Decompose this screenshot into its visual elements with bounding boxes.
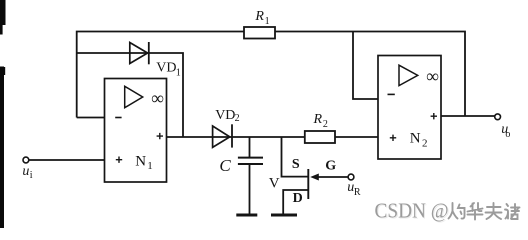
N2 plus sign output: [431, 113, 437, 119]
svg-text:S: S: [292, 157, 300, 172]
op-amp N1 box: [105, 79, 167, 183]
N1 plus sign input: [116, 157, 122, 163]
svg-text:2: 2: [235, 113, 240, 124]
transistor V gate arrowhead: [310, 174, 319, 181]
svg-text:o: o: [505, 129, 510, 140]
op-amp N1 triangle: [125, 86, 143, 107]
svg-text:u: u: [22, 164, 29, 179]
wire VD1 branch: [77, 53, 183, 137]
terminal uo: [495, 114, 501, 120]
svg-text:1: 1: [147, 160, 153, 172]
N2 plus sign input: [390, 135, 396, 141]
char zhuo: [449, 203, 465, 219]
svg-text:N: N: [410, 131, 421, 147]
svg-text:R: R: [354, 187, 361, 198]
svg-text:R: R: [313, 112, 323, 127]
label VD1: [156, 61, 181, 79]
diode VD1: [130, 42, 149, 64]
char fu: [486, 203, 502, 219]
op-amp N2 box: [378, 56, 441, 160]
label N2: [410, 131, 428, 150]
wire capacitor leads: [249, 137, 251, 214]
ground under capacitor: [236, 214, 257, 217]
wire FET gate from uR terminal: [318, 176, 349, 178]
svg-text:G: G: [325, 158, 336, 173]
resistor R2: [305, 131, 335, 143]
wire feedback loop top: left vertical, top horizontal, right vertical: [77, 32, 465, 118]
svg-text:i: i: [30, 170, 33, 181]
N2 minus sign: [388, 93, 395, 95]
wire FET source lead: [282, 137, 308, 177]
capacitor C plates: [238, 158, 263, 164]
svg-text:VD: VD: [156, 61, 176, 76]
svg-text:C: C: [219, 156, 231, 175]
svg-text:∞: ∞: [426, 66, 439, 86]
svg-text:2: 2: [323, 119, 328, 130]
wire N2 inverting input branch: [353, 32, 378, 100]
terminal uR: [348, 174, 354, 180]
terminal ui: [23, 157, 29, 163]
N1 plus sign output: [157, 133, 163, 139]
ground under FET drain: [271, 214, 297, 217]
svg-text:V: V: [269, 175, 280, 191]
wire N2 output: [441, 115, 495, 117]
op-amp N2 triangle: [399, 65, 418, 85]
label VD2: [215, 108, 239, 124]
label uR: [347, 180, 361, 198]
label ui: [22, 164, 32, 181]
wire input from ui terminal: [29, 159, 105, 161]
N1 minus sign: [115, 117, 121, 119]
svg-text:2: 2: [422, 137, 428, 149]
label R2: [313, 112, 328, 130]
svg-text:D: D: [293, 191, 303, 206]
wire FET drain lead: [283, 190, 308, 214]
label N1: [135, 153, 153, 172]
diode VD2: [213, 124, 232, 147]
scan artifact left edge: [0, 0, 6, 228]
svg-text:R: R: [254, 9, 264, 24]
resistor R1: [244, 27, 275, 39]
svg-text:∞: ∞: [151, 88, 164, 108]
transistor V (FET) channel bar: [307, 169, 309, 199]
wire N1 inverting input: [77, 117, 105, 119]
char hua: [468, 203, 483, 220]
svg-text:1: 1: [176, 67, 181, 78]
svg-text:1: 1: [265, 16, 270, 27]
char zhu: [505, 204, 520, 219]
svg-text:VD: VD: [215, 108, 235, 123]
svg-text:N: N: [135, 153, 146, 169]
label R1: [254, 9, 269, 27]
label uo: [501, 122, 510, 140]
watermark CSDN: [375, 199, 450, 224]
watermark chinese chars (drawn strokes): [449, 203, 520, 220]
wire N1 output to N2 input: [167, 136, 379, 138]
svg-text:CSDN @: CSDN @: [375, 199, 449, 223]
